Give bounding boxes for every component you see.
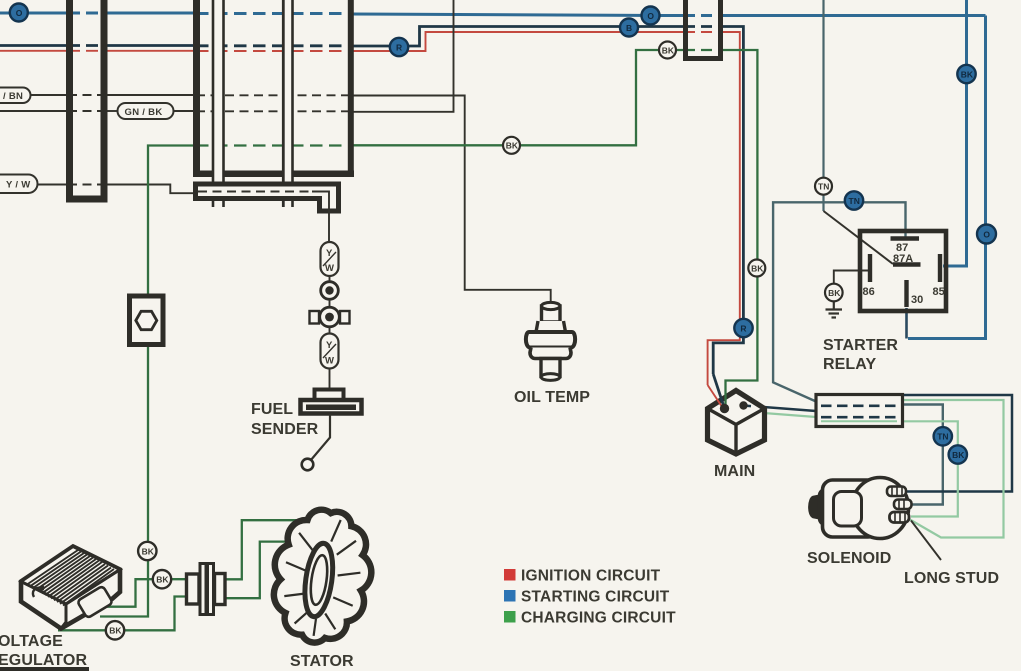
wire: GN/BK thin black wire up at 453.5 (0, 0, 454, 112)
fuel sender symbol (301, 390, 362, 414)
bottom-left scan band (0, 667, 89, 671)
legend: charging circuit (green) (504, 611, 516, 623)
wire: relay 30 stub (905, 308, 908, 339)
top connector box (686, 0, 721, 59)
svg-text:CHARGING CIRCUIT: CHARGING CIRCUIT (521, 610, 676, 627)
svg-text:R: R (740, 323, 746, 333)
contact 86 (868, 254, 872, 282)
svg-text:Y / W: Y / W (6, 180, 31, 191)
dashed wire inside lower bar (198, 191, 312, 193)
wire: connector to stator upper (223, 520, 298, 579)
pill Y/W left (0, 175, 38, 194)
svg-text:TN: TN (818, 182, 829, 192)
wire: regulator to inline connector upper (via BK) (104, 579, 187, 607)
svg-text:OIL TEMP: OIL TEMP (514, 389, 590, 406)
wire label circle BK (white, green wire at connector) (659, 42, 676, 59)
ground symbol (826, 302, 843, 318)
svg-text:BK: BK (156, 575, 169, 585)
wire: relay 86 to ground BK (834, 271, 869, 285)
wire label circle BK (black wire to solenoid) (949, 445, 967, 463)
wire label circle R (red wire to MAIN switch) (734, 319, 752, 337)
wire: light green through cable to BK and bottom pin (821, 421, 958, 516)
svg-text:BK: BK (506, 141, 519, 151)
wire: dark line cable top to solenoid top pin (902, 395, 1012, 492)
solenoid pins (887, 487, 912, 523)
svg-text:TN: TN (849, 196, 860, 206)
wire label circle O (orange wire to relay 30) (977, 225, 996, 244)
fuel sender float arm (311, 414, 331, 461)
svg-text:/ BN: / BN (3, 91, 23, 102)
pill GN/BK (118, 103, 174, 119)
svg-text:BK: BK (961, 69, 974, 79)
pill /BN (0, 88, 31, 104)
svg-text:SENDER: SENDER (251, 421, 319, 438)
wire: red line below navy (0, 32, 740, 385)
pill Y/W vertical 1 (321, 242, 339, 276)
block channel pair A (213, 0, 224, 207)
wire: Y/W thin black wire into lower bar (38, 185, 198, 194)
wire stub (329, 327, 331, 333)
wire stub (329, 276, 331, 282)
wire label circle BK (white, relay 86 ground wire) (825, 284, 843, 302)
wire label circle BK (white, regulator green wire) (138, 542, 156, 560)
wire label circle TN (white, relay coil wire) (815, 178, 832, 195)
svg-text:SOLENOID: SOLENOID (807, 550, 891, 567)
relay switch arm diagonal (824, 211, 894, 264)
svg-text:MAIN: MAIN (714, 463, 755, 480)
svg-text:BK: BK (828, 288, 841, 298)
contact 30 (904, 280, 908, 307)
svg-text:86: 86 (863, 286, 875, 298)
wire: blue vertical right far with O circle to relay 30 (908, 16, 986, 339)
bullet connector (321, 282, 339, 300)
wire label circle O (orange wire, top left) (10, 4, 28, 22)
svg-text:STARTER: STARTER (823, 337, 898, 354)
wire label circle TN (tan wire to relay 87) (845, 191, 863, 209)
wire: BN thin black wire to oil temp (30, 95, 551, 304)
svg-text:BK: BK (751, 263, 764, 273)
pill Y/W vertical 2 (321, 334, 339, 369)
wire label circle BK (white, green wire to MAIN) (748, 260, 765, 277)
wire label circle BK (white, regulator-connector wire) (153, 570, 171, 588)
wire label circle TN (tan wire to solenoid) (934, 427, 952, 445)
lower connector bar with foot (196, 184, 339, 211)
svg-text:W: W (325, 356, 334, 367)
svg-text:O: O (647, 11, 654, 21)
svg-text:BK: BK (142, 546, 155, 556)
winged connector (310, 307, 350, 327)
svg-text:IGNITION CIRCUIT: IGNITION CIRCUIT (521, 568, 661, 585)
wire: blue O line top (starting circuit) (0, 13, 986, 16)
wire label circle R (red wire) (390, 38, 408, 56)
svg-text:BK: BK (662, 45, 675, 55)
svg-text:85: 85 (933, 286, 945, 298)
wire to fuel sender (329, 369, 331, 391)
wire: green fuse to regulator (100, 344, 148, 617)
legend: ignition circuit (red) (504, 569, 516, 581)
wire: TN cable to solenoid mid pin (902, 405, 943, 505)
contact 87A (893, 262, 921, 266)
wire: MAIN to cable dark pair (750, 406, 816, 411)
wire stub (329, 300, 331, 307)
svg-text:B: B (626, 23, 632, 33)
wire label circle BK (white, regulator bottom wire) (106, 621, 124, 639)
wire label circle BK (white, on green charging wire) (503, 137, 520, 154)
wire: navy B/R line (y45.5 stepping to y26.5) (0, 27, 743, 375)
svg-text:30: 30 (911, 294, 923, 306)
svg-text:BK: BK (109, 626, 122, 636)
wire label circle O (orange wire) (642, 7, 660, 25)
svg-text:R: R (396, 42, 402, 52)
svg-text:RELAY: RELAY (823, 356, 876, 373)
svg-text:O: O (983, 229, 990, 239)
svg-text:LONG STUD: LONG STUD (904, 570, 999, 587)
svg-text:W: W (325, 263, 334, 274)
wire tails into terminals (713, 374, 724, 407)
wire: green charging main run (148, 50, 757, 384)
wire label circle B (black wire) (620, 19, 638, 37)
svg-text:O: O (16, 8, 23, 18)
svg-text:OLTAGE: OLTAGE (0, 633, 63, 650)
svg-text:TN: TN (937, 432, 948, 442)
big connector block walls (193, 0, 200, 171)
contact 85 (938, 254, 942, 282)
wire: light green cable to solenoid bottom wrap (902, 400, 1004, 538)
svg-text:STATOR: STATOR (290, 653, 354, 670)
wire: MAIN to cable light green (751, 412, 816, 417)
legend: starting circuit (blue) (504, 590, 516, 602)
left U connector bars (70, 0, 105, 199)
wire label circle BK (black wire to relay 85) (957, 65, 975, 83)
svg-text:BK: BK (952, 450, 965, 460)
svg-text:FUEL: FUEL (251, 401, 293, 418)
svg-text:EGULATOR: EGULATOR (0, 652, 87, 669)
svg-text:STARTING CIRCUIT: STARTING CIRCUIT (521, 589, 670, 606)
wire: TN vertical top to white TN circle and switch arm (822, 0, 824, 178)
svg-text:GN / BK: GN / BK (125, 107, 163, 118)
contact 87 (891, 236, 920, 240)
block channel pair B (283, 0, 292, 207)
wire: regulator to inline connector lower (via BK) (58, 597, 187, 631)
wire: TN horizontal to relay 87 and down to cable (773, 202, 905, 401)
long stud pointer (911, 521, 941, 561)
wire: connector to stator lower (223, 542, 290, 599)
wire: blue vertical x966 from top to relay 85 (943, 0, 967, 266)
